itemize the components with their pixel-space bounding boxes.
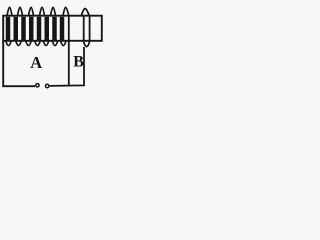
terminal circle 1	[36, 84, 39, 87]
coil L1 section A bottom arcs	[6, 41, 66, 46]
coil L1 section A top arcs	[7, 7, 69, 15]
coil L1 section A winding strokes	[8, 17, 62, 40]
svg-text:B: B	[73, 53, 84, 70]
wire tap from section A down to bottom rail	[68, 16, 70, 86]
terminal circle 2	[46, 84, 49, 87]
coil L1 section B single turn	[81, 9, 90, 47]
wire from terminal 2 across and up to section B	[50, 47, 84, 86]
svg-text:A: A	[30, 53, 42, 72]
wire from core left side down and across to terminal 1	[3, 41, 35, 86]
iron core rectangle	[3, 16, 102, 41]
background	[0, 0, 108, 93]
